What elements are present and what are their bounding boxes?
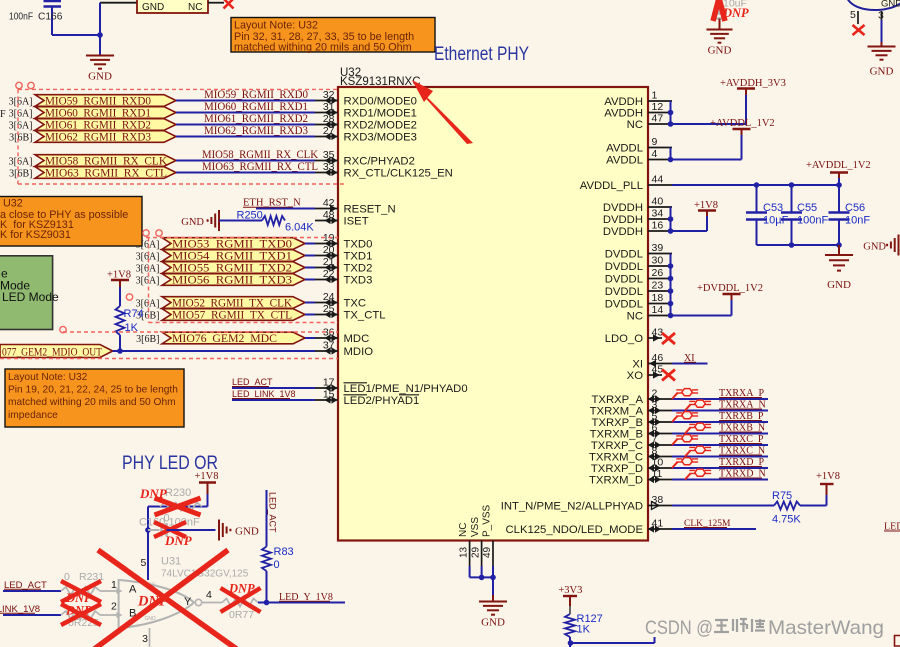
capacitor C53 (756, 185, 758, 212)
wire VSS join (470, 576, 493, 578)
wire (208, 2, 224, 4)
wire (800, 505, 827, 507)
wire (672, 421, 768, 423)
svg-text:+1V8: +1V8 (816, 471, 840, 482)
pin 49 P_VSS (bottom) (492, 541, 494, 567)
pin 9 AVDDL (648, 147, 672, 149)
OR gate U31 (DNP) (119, 580, 194, 628)
svg-text:GND: GND (481, 616, 505, 628)
svg-text:6: 6 (652, 422, 658, 434)
svg-text:matched withing 20 mils and 50: matched withing 20 mils and 50 Ohm (234, 42, 412, 54)
svg-text:10: 10 (652, 457, 664, 469)
svg-text:DVDDL: DVDDL (605, 274, 643, 286)
svg-text:MIO76_GEM2_MDC: MIO76_GEM2_MDC (172, 333, 277, 345)
junction (789, 182, 795, 188)
svg-text:2: 2 (652, 388, 658, 400)
svg-text:3[6A]: 3[6A] (9, 109, 33, 120)
power +AVDDL_1V2 (741, 135, 743, 160)
junction (97, 32, 103, 38)
svg-text:MIO63_RGMII_RX_CTL: MIO63_RGMII_RX_CTL (202, 161, 318, 173)
svg-text:41: 41 (652, 518, 664, 530)
pin 21 TXD2 (315, 267, 338, 269)
svg-text:RXC/PHYAD2: RXC/PHYAD2 (344, 156, 415, 168)
svg-text:AVDDL: AVDDL (606, 155, 643, 167)
svg-text:RXD0/MODE0: RXD0/MODE0 (344, 96, 417, 108)
svg-text:AVDDL_PLL: AVDDL_PLL (580, 180, 643, 192)
selection vertex (126, 294, 132, 300)
svg-text:INT_N/PME_N2/ALLPHYAD: INT_N/PME_N2/ALLPHYAD (501, 501, 643, 513)
svg-text:GND: GND (181, 217, 204, 228)
junction (668, 157, 674, 163)
svg-text:TXRXM_B: TXRXM_B (590, 429, 643, 441)
pin 17 LED1/PME_N1/PHYAD0 (315, 387, 338, 389)
svg-text:RX_CTL/CLK125_EN: RX_CTL/CLK125_EN (344, 168, 453, 180)
svg-text:35: 35 (323, 149, 335, 161)
svg-text:TXD1: TXD1 (344, 251, 373, 263)
harness entry MIO62_RGMII_RXD3 (35, 131, 176, 143)
DNP X over U31 (98, 550, 238, 647)
svg-text:GND: GND (142, 2, 164, 13)
power +1V8 (DVDDH) (706, 216, 708, 231)
pin 2 TXRXP_A (648, 398, 672, 400)
svg-text:GND: GND (235, 526, 259, 538)
svg-text:1K: 1K (577, 624, 591, 636)
harness entry MIO54_RGMII_TXD1 (162, 250, 305, 262)
no-connect X (853, 25, 865, 35)
resistor R75 (774, 502, 800, 510)
pin 24 TXC (315, 302, 338, 304)
svg-text:MIO58_RGMII_RX_CLK: MIO58_RGMII_RX_CLK (45, 156, 168, 168)
svg-text:44: 44 (652, 174, 664, 186)
junction (668, 288, 674, 294)
harness entry MIO63_RGMII_RX_CTL (35, 167, 176, 179)
svg-text:MIO61_RGMII_RXD2: MIO61_RGMII_RXD2 (204, 113, 308, 125)
pin 23 DVDDL (648, 290, 672, 292)
wire DVDDH rail (670, 207, 672, 231)
svg-text:U31: U31 (161, 556, 181, 568)
no-connect X (662, 370, 675, 381)
svg-text:NC: NC (458, 523, 469, 537)
svg-text:+1V8: +1V8 (195, 471, 219, 482)
svg-text:LED_LINK_1V8: LED_LINK_1V8 (232, 389, 296, 399)
wire (3, 590, 61, 592)
ground (caps) (838, 245, 840, 255)
pin 10 TXRXP_D (648, 467, 672, 469)
svg-text:+1V8: +1V8 (107, 270, 131, 281)
junction (668, 110, 674, 116)
ground (C160) (218, 520, 220, 541)
svg-text:Layout Note: U32: Layout Note: U32 (234, 20, 318, 32)
resistor R225 (DNP) (61, 611, 100, 619)
junction (668, 121, 674, 127)
svg-text:20: 20 (323, 244, 335, 256)
svg-text:DVDDH: DVDDH (603, 214, 643, 226)
wire (100, 614, 119, 616)
pin 45 XO (648, 374, 662, 376)
svg-text:MIO62_RGMII_RXD3: MIO62_RGMII_RXD3 (45, 132, 151, 144)
pin 35 RXC/PHYAD2 (315, 160, 338, 162)
ground (gate) (881, 42, 883, 47)
svg-text:+AVDDL_1V2: +AVDDL_1V2 (806, 160, 871, 171)
svg-text:TXRXP_A: TXRXP_A (592, 394, 644, 406)
junction (568, 640, 574, 646)
svg-text:TXRXM_D: TXRXM_D (589, 475, 643, 487)
svg-text:C166: C166 (38, 12, 63, 23)
power +1V8 (R75) (826, 484, 828, 495)
svg-text:TXRXM_C: TXRXM_C (589, 452, 643, 464)
svg-text:AVDDH: AVDDH (604, 108, 643, 120)
junction (668, 276, 674, 282)
svg-text:GND: GND (145, 616, 157, 622)
svg-text:38: 38 (652, 494, 664, 506)
pin 34 DVDDH (648, 218, 672, 220)
ground (ISET) (218, 210, 220, 231)
wire XI (672, 363, 708, 365)
wire (570, 642, 655, 644)
pin 13 NC (bottom) (469, 541, 471, 567)
wire (672, 398, 768, 400)
pin 40 DVDDH (648, 206, 672, 208)
wire DVDDL rail (670, 254, 672, 316)
pin 46 XI (648, 363, 672, 365)
power +AVDDH_3V3 (745, 95, 747, 124)
wire (119, 335, 121, 351)
junction (117, 348, 123, 354)
pin 31 RXD1/MODE1 (315, 112, 338, 114)
differential pair directive (685, 427, 691, 433)
svg-text:37: 37 (323, 340, 335, 352)
selection dash MDC group (63, 331, 338, 333)
selection dash TX group (146, 237, 338, 239)
svg-text:RXD1/MODE1: RXD1/MODE1 (344, 108, 417, 120)
junction (668, 263, 674, 269)
pin 15 LED2/PHYAD1 (315, 399, 338, 401)
pin 39 DVDDL (648, 253, 672, 255)
svg-text:17: 17 (323, 377, 335, 389)
junction (789, 242, 795, 248)
svg-text:MIO60_RGMII_RXD1: MIO60_RGMII_RXD1 (45, 108, 151, 120)
svg-text:RXD3/MODE3: RXD3/MODE3 (344, 132, 417, 144)
pin 5 TXRXP_B (648, 421, 672, 423)
resistor R250 (262, 216, 285, 225)
svg-text:NC: NC (627, 311, 643, 323)
ground (DNP cap) (719, 19, 721, 30)
pin 27 RXD3/MODE3 (315, 136, 338, 138)
pin 28 RXD2/MODE2 (315, 124, 338, 126)
wire (672, 505, 774, 507)
junction (754, 182, 760, 188)
pin 29 VSS (bottom) (481, 541, 483, 567)
svg-text:28: 28 (323, 113, 335, 125)
wire (672, 433, 768, 435)
junction (490, 575, 496, 581)
svg-text:18: 18 (652, 292, 664, 304)
svg-text:3[6A]: 3[6A] (136, 252, 160, 263)
junction (836, 242, 842, 248)
svg-text:9: 9 (652, 136, 658, 148)
svg-text:LED Mode: LED Mode (2, 290, 59, 304)
svg-text:DVDDH: DVDDH (603, 202, 643, 214)
pin 11 TXRXM_D (648, 479, 672, 481)
svg-text:32: 32 (323, 89, 335, 101)
svg-text:14: 14 (652, 304, 664, 316)
junction (836, 182, 842, 188)
svg-text:DVDDH: DVDDH (603, 226, 643, 238)
wire (305, 302, 315, 304)
svg-text:LED2/PHYAD1: LED2/PHYAD1 (344, 395, 420, 407)
svg-text:3: 3 (652, 399, 658, 411)
wire (232, 387, 315, 389)
wire (176, 100, 315, 102)
layout note 3 (0, 197, 142, 247)
svg-text:1: 1 (652, 90, 658, 102)
selection dash RX group (18, 88, 338, 90)
svg-text:25: 25 (323, 303, 335, 315)
wire (176, 160, 315, 162)
svg-text:LED_ACT: LED_ACT (268, 492, 278, 533)
svg-text:MIO62_RGMII_RXD3: MIO62_RGMII_RXD3 (204, 125, 308, 137)
capacitor C166 (44, 0, 62, 2)
layout note 2 (5, 369, 184, 427)
junction (264, 600, 270, 606)
svg-text:Y: Y (184, 596, 192, 608)
svg-text:U32: U32 (3, 198, 23, 210)
harness entry MIO56_RGMII_TXD3 (162, 274, 305, 286)
svg-text:Ethernet PHY: Ethernet PHY (434, 44, 529, 65)
svg-text:MIO56_RGMII_TXD3: MIO56_RGMII_TXD3 (172, 275, 292, 287)
svg-text:4.75K: 4.75K (772, 514, 801, 526)
wire (147, 507, 149, 581)
svg-text:4: 4 (652, 148, 658, 160)
ground (VSS) (492, 577, 494, 595)
svg-text:3[6B]: 3[6B] (9, 133, 32, 144)
wire (672, 410, 768, 412)
svg-text:TXD0: TXD0 (344, 239, 373, 251)
wire (305, 243, 315, 245)
layout note 1 (231, 18, 435, 53)
svg-text:100nF: 100nF (9, 12, 33, 23)
svg-text:C56: C56 (845, 202, 865, 214)
svg-text:R250: R250 (237, 210, 263, 222)
svg-text:3[6A]: 3[6A] (136, 276, 160, 287)
svg-text:4: 4 (206, 589, 212, 601)
svg-text:TXRXM_A: TXRXM_A (590, 406, 644, 418)
pin 7 TXRXP_C (648, 444, 672, 446)
wire (232, 399, 315, 401)
svg-text:CSDN @: CSDN @ (645, 617, 713, 639)
harness fragment (bottom right) (895, 636, 900, 647)
svg-text:LED1/PME_N1/PHYAD0: LED1/PME_N1/PHYAD0 (344, 383, 468, 395)
pin 16 DVDDH (648, 230, 672, 232)
svg-text:TXD2: TXD2 (344, 263, 373, 275)
wire (305, 255, 315, 257)
wire (672, 528, 756, 530)
svg-text:GND: GND (870, 66, 894, 78)
pin 25 TX_CTL (315, 314, 338, 316)
svg-text:2: 2 (111, 601, 117, 613)
power +DVDDL_1V2 (731, 300, 733, 316)
wire (99, 3, 101, 35)
svg-text:XO: XO (627, 370, 644, 382)
svg-text:MIO54_RGMII_TXD1: MIO54_RGMII_TXD1 (172, 251, 292, 263)
svg-text:30: 30 (652, 255, 664, 267)
svg-text:27: 27 (323, 125, 335, 137)
svg-text:43: 43 (652, 327, 664, 339)
svg-text:3: 3 (142, 633, 148, 645)
no-connect X (224, 0, 234, 9)
resistor R230 (DNP) (160, 503, 202, 511)
svg-text:TX_CTL: TX_CTL (344, 310, 386, 322)
pin 43 LDO_O (648, 337, 662, 339)
svg-text:MIO63_RGMII_RX_CTL: MIO63_RGMII_RX_CTL (45, 168, 167, 180)
svg-text:MIO52_RGMII_TX_CLK: MIO52_RGMII_TX_CLK (172, 298, 293, 310)
svg-text:6.04K: 6.04K (285, 222, 314, 234)
pin 48 ISET (315, 220, 338, 222)
svg-text:K for KSZ9031: K for KSZ9031 (0, 229, 71, 241)
svg-text:MIO60_RGMII_RXD1: MIO60_RGMII_RXD1 (204, 101, 308, 113)
differential pair directive (685, 404, 691, 410)
svg-text:XI: XI (632, 359, 643, 371)
svg-text:077_GEM2_MDIO_OUT: 077_GEM2_MDIO_OUT (2, 345, 103, 359)
svg-text:MDC: MDC (344, 333, 370, 345)
svg-text:matched withing 20 mils and 50: matched withing 20 mils and 50 Ohm (8, 397, 176, 408)
svg-text:3[6B]: 3[6B] (9, 169, 32, 180)
svg-text:3[6A]: 3[6A] (136, 264, 160, 275)
svg-text:R83: R83 (274, 546, 294, 558)
svg-text:MIO59_RGMII_RXD0: MIO59_RGMII_RXD0 (45, 96, 151, 108)
svg-text:NC: NC (627, 119, 643, 131)
capacitor C160 (DNP) (148, 529, 160, 531)
red annotation arrow (412, 80, 473, 144)
wire (305, 337, 315, 339)
svg-text:12: 12 (652, 101, 664, 113)
capacitor C55 (791, 185, 793, 212)
svg-text:ISET: ISET (344, 216, 369, 228)
svg-text:26: 26 (652, 267, 664, 279)
wire AVDDL rail (670, 148, 672, 160)
svg-text:21: 21 (323, 256, 335, 268)
harness entry MIO57_RGMII_TX_CTL (162, 309, 305, 321)
svg-text:DVDDL: DVDDL (605, 299, 643, 311)
junction (145, 527, 151, 533)
svg-text:AVDDH: AVDDH (604, 96, 643, 108)
harness entry MIO61_RGMII_RXD2 (35, 119, 176, 131)
pin 12 AVDDH (648, 112, 672, 114)
wire (672, 479, 768, 481)
svg-text:23: 23 (652, 280, 664, 292)
pin 8 TXRXM_C (648, 456, 672, 458)
svg-text:TXRXP_B: TXRXP_B (592, 417, 643, 429)
svg-text:MIO59_RGMII_RXD0: MIO59_RGMII_RXD0 (204, 89, 308, 101)
svg-text:LED_ACT: LED_ACT (232, 377, 273, 387)
differential pair directive (685, 450, 691, 456)
svg-text:VSS: VSS (470, 517, 481, 537)
ground (99, 35, 101, 56)
wire (305, 267, 315, 269)
svg-text:R230: R230 (165, 487, 191, 499)
differential pair directive (672, 393, 678, 399)
resistor R74 (116, 306, 125, 335)
svg-text:24: 24 (323, 291, 335, 303)
svg-text:MasterWang: MasterWang (768, 617, 884, 639)
svg-text:MIO55_RGMII_TXD2: MIO55_RGMII_TXD2 (172, 263, 292, 275)
svg-text:TXRXP_D: TXRXP_D (591, 463, 643, 475)
svg-text:TXD3: TXD3 (344, 275, 373, 287)
svg-text:+AVDDH_3V3: +AVDDH_3V3 (720, 78, 786, 89)
green note box (0, 256, 53, 330)
svg-text:AVDDL: AVDDL (606, 143, 643, 155)
pin 18 DVDDL (648, 303, 672, 305)
svg-text:5: 5 (850, 9, 856, 21)
svg-text:3[6A]: 3[6A] (9, 157, 33, 168)
svg-text:C55: C55 (797, 202, 817, 214)
wire (100, 590, 119, 592)
pin 47 NC (648, 123, 672, 125)
svg-text:5: 5 (652, 411, 658, 423)
pin 44 AVDDL_PLL (648, 184, 672, 186)
svg-text:NC: NC (188, 2, 202, 13)
svg-text:29: 29 (471, 546, 482, 558)
svg-text:3[6A]: 3[6A] (9, 97, 33, 108)
power +AVDDL_1V2 (PLL) (838, 178, 840, 185)
pin 3 (U31) (149, 628, 151, 647)
svg-text:RXD2/MODE2: RXD2/MODE2 (344, 120, 417, 132)
wire (3, 614, 61, 616)
pin 22 TXD3 (315, 279, 338, 281)
resistor R127 (565, 614, 575, 637)
svg-text:DVDDL: DVDDL (605, 249, 643, 261)
wire (672, 456, 768, 458)
wire AVDDH rail (670, 101, 672, 124)
svg-text:MIO58_RGMII_RX_CLK: MIO58_RGMII_RX_CLK (202, 149, 319, 161)
wire (52, 34, 100, 36)
pin 20 TXD1 (315, 255, 338, 257)
svg-text:11: 11 (652, 468, 663, 480)
pin 3 TXRXM_A (648, 410, 672, 412)
harness entry MIO55_RGMII_TXD2 (162, 262, 305, 274)
differential pair directive (685, 473, 691, 479)
wire (113, 350, 315, 352)
harness entry MIO52_RGMII_TX_CLK (162, 297, 305, 309)
svg-text:F: F (0, 109, 6, 120)
svg-text:A: A (129, 584, 137, 596)
svg-text:R74: R74 (124, 308, 144, 320)
resistor R83 (262, 547, 271, 572)
wire (569, 637, 571, 647)
wire (176, 124, 315, 126)
resistor R77 (DNP) (222, 599, 258, 607)
IC U32 body (338, 87, 648, 541)
svg-text:DVDDL: DVDDL (605, 286, 643, 298)
resistor R231 (DNP) (61, 587, 100, 595)
svg-text:8: 8 (652, 445, 658, 457)
svg-text:LDO_O: LDO_O (605, 333, 644, 345)
pin 42 RESET_N (315, 208, 338, 210)
no-connect X (662, 333, 675, 344)
svg-text:GND: GND (88, 70, 112, 82)
svg-text:15: 15 (323, 389, 335, 401)
svg-text:TXRXP_C: TXRXP_C (591, 440, 643, 452)
wire (100, 2, 137, 4)
svg-text:39: 39 (652, 242, 664, 254)
svg-text:+3V3: +3V3 (558, 585, 582, 596)
pin 36 MDC (315, 337, 338, 339)
svg-text:34: 34 (652, 208, 664, 220)
wire AVDDL_PLL (672, 184, 839, 186)
svg-text:3[6B]: 3[6B] (136, 334, 159, 345)
svg-text:+1V8: +1V8 (694, 200, 718, 211)
pin 37 MDIO (315, 350, 338, 352)
